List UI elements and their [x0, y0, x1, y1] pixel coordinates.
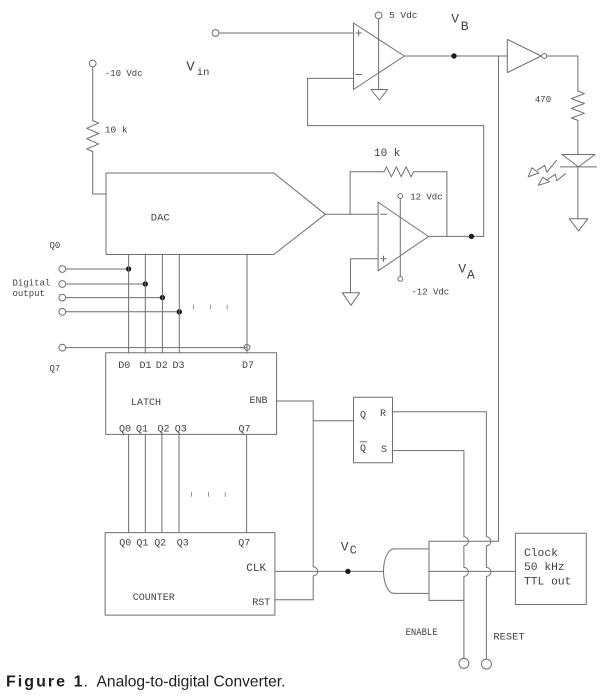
figure caption	[6, 673, 285, 690]
node VC label	[341, 540, 357, 558]
svg-text:in: in	[197, 67, 210, 79]
counter pin Q1	[136, 539, 148, 550]
wire AND input from VB	[429, 540, 499, 542]
svg-text:Analog-to-digital Converter.: Analog-to-digital Converter.	[97, 673, 286, 690]
svg-text:C: C	[350, 544, 357, 557]
node junction D0	[126, 266, 131, 271]
latch pin D2	[156, 361, 168, 372]
SR pin S	[381, 445, 387, 456]
wire	[66, 311, 180, 313]
svg-text:Q0: Q0	[50, 241, 61, 251]
svg-text:A: A	[467, 268, 475, 283]
svg-text:Q1: Q1	[136, 539, 148, 550]
wire AND input from clock	[429, 570, 515, 572]
DAC U2	[106, 173, 325, 255]
node junction D7	[244, 345, 250, 351]
svg-text:COUNTER: COUNTER	[133, 593, 175, 604]
and-gate U8	[384, 541, 429, 600]
SR latch U7	[354, 397, 393, 463]
svg-text:Q: Q	[360, 411, 366, 422]
svg-text:Q3: Q3	[177, 539, 189, 550]
latch pin D1	[140, 361, 152, 372]
wire bus Q7	[246, 434, 248, 532]
ground	[342, 293, 359, 306]
wire bus D0	[128, 255, 130, 353]
terminal -12 Vdc	[398, 277, 403, 282]
wire ENB to RST with hop	[313, 401, 318, 600]
wire supply U4	[399, 198, 401, 276]
inverter U3	[507, 39, 546, 72]
counter pin Q7	[238, 539, 250, 550]
clock text	[524, 548, 571, 589]
SR pin Q	[360, 411, 366, 422]
svg-text:D1: D1	[140, 361, 152, 372]
svg-text:V: V	[341, 540, 349, 555]
wire AND input from ENABLE	[429, 599, 464, 601]
wire VB to AND gate	[498, 56, 500, 541]
svg-text:D3: D3	[173, 361, 185, 372]
svg-text:Q7: Q7	[50, 364, 61, 374]
latch pin D3	[173, 361, 185, 372]
terminal Vin	[212, 30, 219, 37]
latch label	[131, 398, 161, 409]
svg-text:5 Vdc: 5 Vdc	[389, 10, 418, 21]
svg-text:RESET: RESET	[493, 633, 524, 644]
SR pin R	[380, 409, 386, 420]
terminal 12 Vdc	[398, 194, 403, 199]
svg-text:Q0: Q0	[119, 425, 131, 436]
R2 value 470	[535, 95, 551, 105]
wire bus D1	[144, 255, 146, 353]
wire counter RST	[275, 599, 313, 601]
svg-text:Figure 1: Figure 1	[6, 673, 83, 690]
svg-text:Q0: Q0	[119, 539, 131, 550]
svg-text:DAC: DAC	[151, 213, 170, 225]
svg-text:D7: D7	[242, 361, 254, 372]
latch pin Q1	[136, 425, 148, 436]
terminal ENABLE	[459, 658, 469, 668]
svg-text:50 kHz: 50 kHz	[524, 562, 565, 574]
svg-text:CLK: CLK	[246, 563, 266, 575]
wire bus Q3	[178, 434, 180, 532]
svg-text:Q2: Q2	[154, 539, 166, 550]
LED D1	[561, 155, 597, 167]
wire	[66, 283, 146, 285]
latch pin Q3	[175, 425, 187, 436]
wire	[577, 120, 579, 154]
svg-text:V: V	[458, 262, 466, 277]
svg-text:D0: D0	[118, 361, 130, 372]
node junction D1	[143, 281, 148, 286]
wire	[483, 126, 485, 237]
svg-text:10 k: 10 k	[374, 148, 401, 160]
svg-text:R: R	[380, 409, 386, 420]
svg-text:-12 Vdc: -12 Vdc	[411, 288, 449, 298]
counter pin RST	[252, 598, 270, 609]
svg-text:Q1: Q1	[136, 425, 148, 436]
terminal Q3	[59, 308, 66, 315]
wire	[66, 347, 247, 349]
latch pin Q2	[158, 425, 170, 436]
wire	[66, 297, 163, 299]
node VB label	[451, 12, 469, 34]
terminal Q2	[59, 294, 66, 301]
wire	[66, 268, 129, 270]
Digital output label	[13, 279, 51, 300]
svg-text:output: output	[13, 289, 45, 299]
wire	[219, 32, 354, 34]
resistor R3 10 k feedback	[350, 167, 447, 237]
wire SR R to RESET with hops	[393, 412, 491, 659]
wire to SR latch Q	[313, 420, 353, 422]
wire bus Q2	[161, 434, 163, 532]
svg-text:Q: Q	[360, 444, 366, 455]
svg-text:Q3: Q3	[175, 425, 187, 436]
op-amp U1	[354, 23, 405, 90]
counter pin Q0	[119, 539, 131, 550]
LED light arrow 1	[528, 161, 556, 177]
counter pin CLK	[246, 563, 266, 575]
svg-text:Digital: Digital	[13, 279, 51, 289]
wire	[93, 152, 106, 195]
latch pin Q7	[239, 425, 251, 436]
wire	[307, 78, 309, 125]
ground	[371, 90, 388, 101]
latch pin D0	[118, 361, 130, 372]
bus ellipsis marks	[192, 492, 226, 496]
svg-text:S: S	[381, 445, 387, 456]
terminal 5 Vdc	[375, 12, 382, 19]
node VB	[451, 53, 456, 58]
LED light arrow 2	[538, 174, 565, 186]
svg-text:B: B	[461, 19, 469, 34]
wire bus Q0	[128, 434, 130, 532]
latch U5	[106, 353, 277, 435]
svg-text:Q7: Q7	[239, 425, 251, 436]
node VA	[469, 234, 474, 239]
wire DAC output	[325, 213, 378, 215]
svg-text:V: V	[186, 60, 195, 76]
Q0 label	[50, 241, 61, 251]
svg-text:.: .	[84, 673, 88, 690]
svg-text:ENABLE: ENABLE	[406, 628, 438, 639]
wire U1 inverting input	[308, 77, 354, 79]
bus ellipsis marks	[193, 305, 227, 309]
svg-text:LATCH: LATCH	[131, 398, 161, 409]
DAC label	[151, 213, 170, 225]
ground	[569, 219, 588, 231]
counter U6	[105, 533, 275, 616]
node VC	[345, 569, 350, 574]
svg-text:12 Vdc: 12 Vdc	[410, 193, 442, 203]
wire bus Q1	[144, 434, 146, 532]
svg-text:RST: RST	[252, 598, 270, 609]
latch pin Q0	[119, 425, 131, 436]
svg-text:ENB: ENB	[250, 396, 268, 407]
wire U4 non-inverting input	[351, 259, 379, 293]
terminal -10 Vdc	[89, 60, 96, 67]
wire U1 output	[404, 55, 507, 57]
svg-text:TTL out: TTL out	[524, 577, 571, 589]
resistor R1 10 k	[87, 121, 99, 152]
terminal Q7	[59, 344, 66, 351]
-10 Vdc label	[105, 69, 143, 79]
wire bus D3	[178, 255, 180, 353]
wire latch ENB	[277, 400, 314, 402]
node VA label	[458, 262, 475, 283]
svg-text:470: 470	[535, 95, 551, 105]
ENABLE label	[406, 628, 438, 639]
wire bus D2	[161, 255, 163, 353]
svg-text:V: V	[451, 12, 459, 27]
wire	[308, 125, 484, 127]
5 Vdc label	[389, 10, 418, 21]
SR pin Qbar	[360, 442, 367, 455]
terminal Q1	[59, 281, 66, 288]
-12 Vdc label	[411, 288, 449, 298]
svg-text:D2: D2	[156, 361, 168, 372]
latch pin ENB	[250, 396, 268, 407]
counter pin Q3	[177, 539, 189, 550]
R3 value 10 k	[374, 148, 401, 160]
Q7 label	[50, 364, 61, 374]
counter label	[133, 593, 175, 604]
wire bus D7	[246, 255, 248, 353]
svg-text:Clock: Clock	[524, 548, 558, 560]
svg-text:Q7: Q7	[238, 539, 250, 550]
terminal Q0	[59, 266, 66, 273]
latch pin D7	[242, 361, 254, 372]
12 Vdc label	[410, 193, 442, 203]
op-amp U4	[378, 202, 428, 271]
wire	[92, 67, 94, 121]
wire inverter output	[547, 56, 578, 91]
node junction D2	[160, 295, 165, 300]
svg-text:Q2: Q2	[158, 425, 170, 436]
svg-text:10 k: 10 k	[105, 125, 128, 136]
terminal RESET	[481, 659, 491, 669]
wire counter CLK to AND output	[275, 570, 384, 572]
RESET label	[493, 633, 524, 644]
wire SR S to ENABLE with hops	[393, 451, 469, 659]
wire	[577, 167, 579, 219]
node Vin label	[186, 60, 209, 79]
resistor R2 470	[571, 91, 584, 120]
wire U4 output	[429, 235, 484, 237]
wire supply U1	[378, 19, 380, 90]
svg-text:-10 Vdc: -10 Vdc	[105, 69, 143, 79]
node junction D3	[177, 309, 182, 314]
R1 value 10 k	[105, 125, 128, 136]
clock box	[515, 533, 586, 604]
counter pin Q2	[154, 539, 166, 550]
